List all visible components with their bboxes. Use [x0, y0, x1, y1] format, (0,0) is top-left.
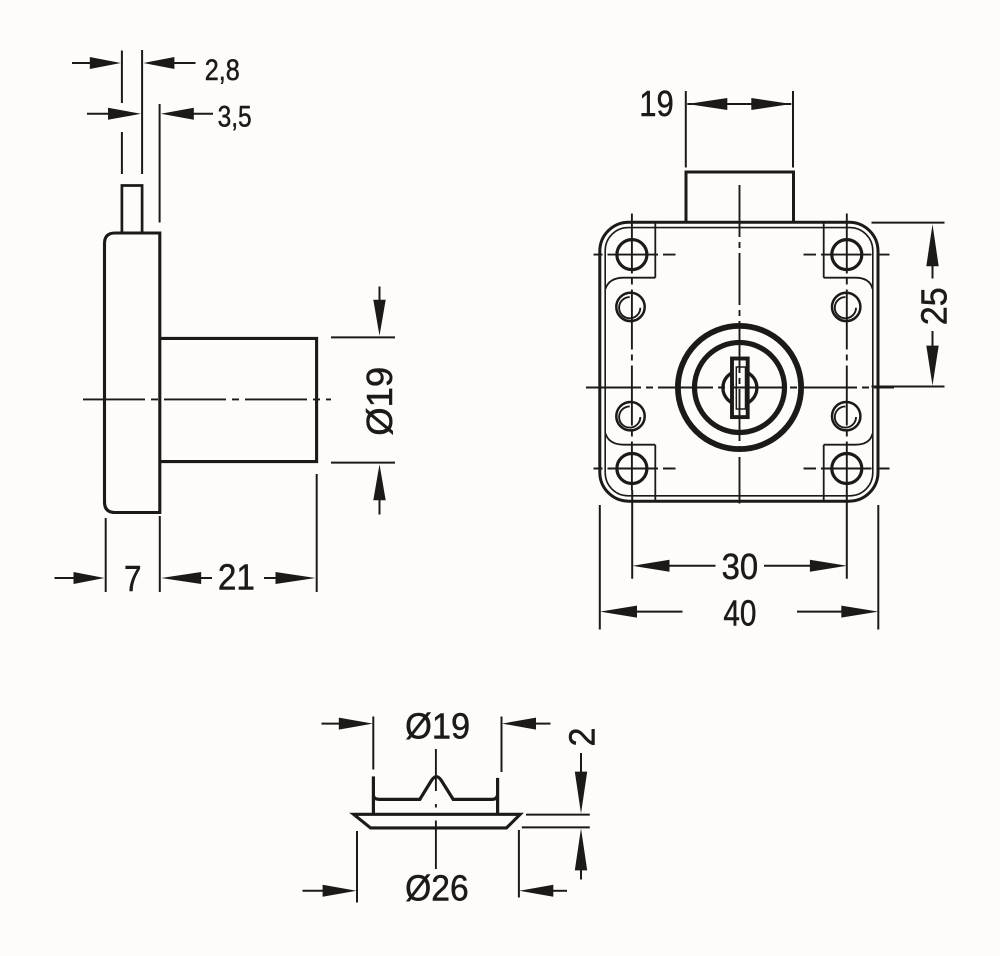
svg-text:7: 7	[124, 558, 142, 599]
svg-text:Ø19: Ø19	[359, 367, 400, 436]
svg-text:19: 19	[639, 83, 674, 124]
svg-text:3,5: 3,5	[218, 100, 252, 133]
svg-text:25: 25	[913, 287, 954, 325]
svg-text:21: 21	[218, 556, 255, 597]
svg-text:Ø19: Ø19	[405, 705, 470, 746]
svg-text:30: 30	[722, 546, 759, 587]
svg-text:2,8: 2,8	[205, 54, 240, 87]
svg-text:Ø26: Ø26	[405, 867, 469, 908]
svg-text:2: 2	[561, 728, 602, 747]
svg-text:40: 40	[723, 592, 756, 633]
